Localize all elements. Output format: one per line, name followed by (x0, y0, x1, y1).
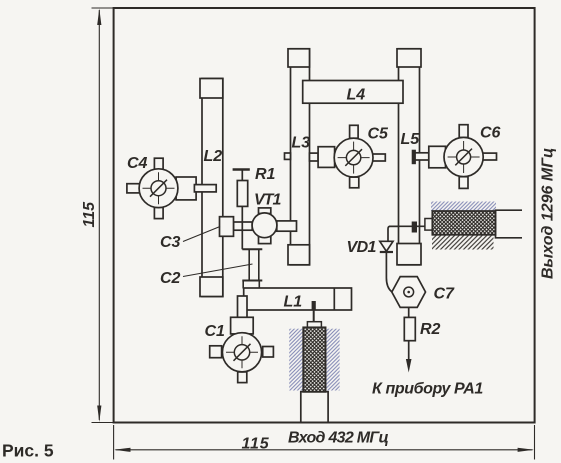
svg-text:L5: L5 (401, 131, 421, 148)
resistor R2 (404, 307, 415, 340)
svg-text:VT1: VT1 (254, 192, 281, 209)
transistor VT1 (234, 208, 297, 244)
trimmer C5 (285, 125, 386, 188)
svg-text:C5: C5 (368, 126, 390, 143)
svg-text:C2: C2 (160, 270, 181, 287)
svg-text:C7: C7 (434, 286, 456, 303)
svg-text:L2: L2 (204, 148, 223, 165)
svg-text:Вход 432 МГц: Вход 432 МГц (288, 430, 389, 447)
pointer line C2 (183, 264, 253, 277)
trimmer C3 (220, 217, 234, 237)
arrow to PA1 (406, 341, 412, 373)
feedthrough capacitor C7 (392, 277, 426, 308)
stripline L4 (303, 81, 403, 104)
pointer line C3 (183, 227, 220, 242)
svg-text:R1: R1 (255, 166, 276, 183)
stripline L2 (200, 79, 223, 297)
input coax connector (289, 301, 339, 423)
svg-text:C4: C4 (127, 155, 148, 172)
trimmer C1 (210, 296, 274, 383)
stripline L5 (397, 49, 421, 265)
svg-text:115: 115 (242, 436, 270, 453)
capacitor C2 column (242, 249, 262, 288)
svg-text:C3: C3 (160, 234, 181, 251)
diode VD1 (380, 226, 399, 291)
svg-text:C1: C1 (205, 323, 226, 340)
svg-text:L3: L3 (292, 135, 311, 152)
svg-text:L4: L4 (347, 87, 366, 104)
output coax connector (389, 202, 522, 250)
stripline L1 (244, 288, 352, 310)
trimmer C4 (127, 158, 216, 218)
trimmer C6 (412, 125, 497, 189)
svg-text:VD1: VD1 (347, 239, 377, 256)
svg-text:C6: C6 (480, 125, 501, 142)
stripline L3 (288, 49, 310, 265)
resistor R1 (233, 170, 250, 250)
svg-text:К прибору РА1: К прибору РА1 (372, 381, 483, 398)
svg-text:R2: R2 (420, 321, 441, 338)
svg-text:L1: L1 (284, 294, 303, 311)
dimension 115 bottom (114, 425, 535, 460)
chassis outline (114, 8, 535, 423)
dimension 115 left (92, 8, 114, 423)
svg-text:Рис. 5: Рис. 5 (2, 441, 54, 461)
svg-text:Выход 1296 МГц: Выход 1296 МГц (540, 148, 557, 279)
svg-text:115: 115 (81, 201, 98, 228)
